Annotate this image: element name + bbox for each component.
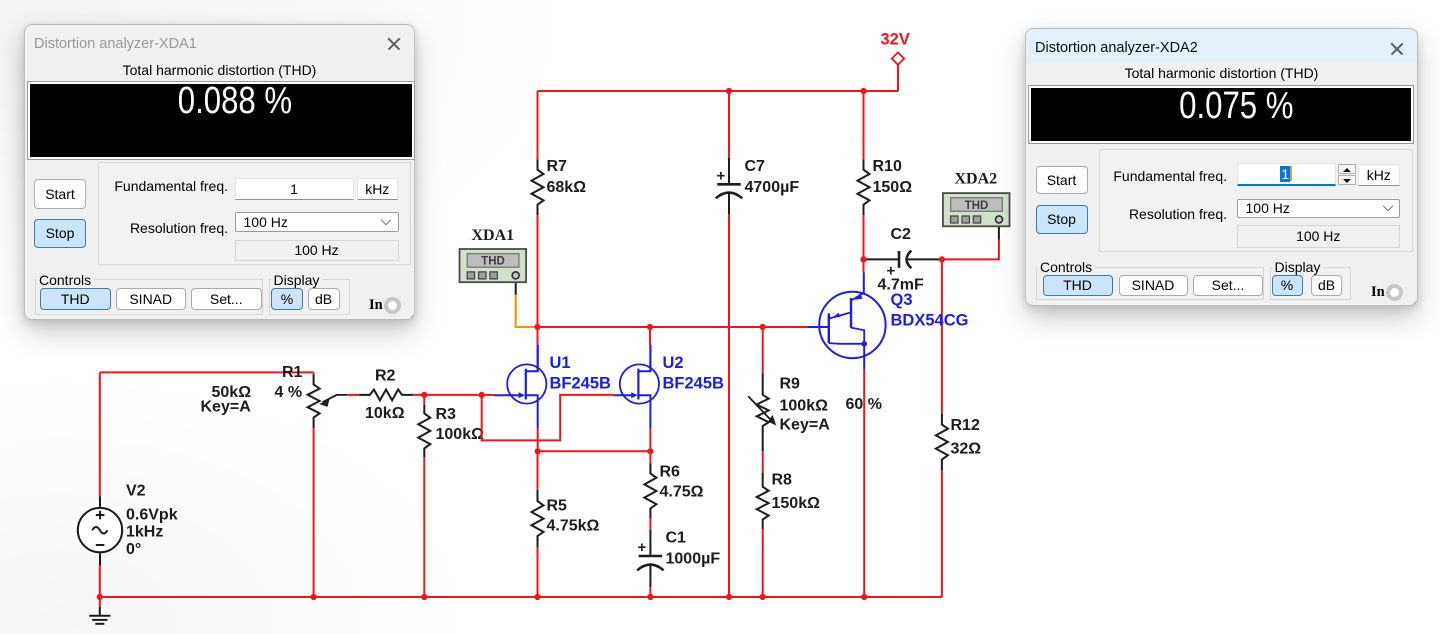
resistor R3 <box>418 405 430 457</box>
svg-text:R2: R2 <box>375 368 396 385</box>
svg-text:150kΩ: 150kΩ <box>772 495 821 512</box>
node mid-bus/R9 junction <box>760 324 766 330</box>
capacitor C2 <box>866 258 898 260</box>
resistor R6 <box>644 463 656 518</box>
wire mid bus <box>536 326 807 328</box>
node R8/bottom-bus junction <box>760 594 766 600</box>
svg-text:THD: THD <box>965 200 989 212</box>
wire mid-bus to U2 drain <box>649 327 651 345</box>
wire V2 to bottom bus <box>99 565 101 597</box>
wire R6 to C1 <box>649 519 651 530</box>
wire mid-bus to U1 drain <box>537 327 539 345</box>
svg-text:4 %: 4 % <box>275 384 303 401</box>
wire source node to R6 <box>649 451 651 463</box>
resistor R7 <box>532 159 544 215</box>
transistor U2 <box>649 345 651 371</box>
svg-text:150Ω: 150Ω <box>873 179 913 196</box>
wire source node to R5 <box>537 451 539 489</box>
node C7/bottom-bus junction <box>726 594 732 600</box>
svg-text:XDA2: XDA2 <box>955 171 998 188</box>
instrument window XDA2 <box>1025 28 1418 306</box>
ground <box>99 607 101 616</box>
wire R10 to C2 node <box>863 215 865 259</box>
svg-text:C2: C2 <box>891 226 912 243</box>
svg-text:Q3: Q3 <box>891 291 913 309</box>
wire R1 to bottom bus <box>313 428 315 597</box>
svg-text:68kΩ: 68kΩ <box>547 179 587 196</box>
svg-text:Key=A: Key=A <box>780 417 831 434</box>
svg-text:60 %: 60 % <box>846 396 882 413</box>
node U1 source junction <box>535 448 541 454</box>
svg-text:R3: R3 <box>436 406 457 423</box>
node C2/R12 junction <box>939 256 945 262</box>
wire R3 to bottom bus <box>423 457 425 597</box>
svg-text:C1: C1 <box>666 530 687 547</box>
svg-text:BDX54CG: BDX54CG <box>891 312 969 330</box>
node mid-bus/U2 junction <box>647 324 653 330</box>
svg-text:1kHz: 1kHz <box>126 524 163 541</box>
wire Q3 base stub <box>807 326 819 328</box>
node C1/bottom-bus junction <box>647 594 653 600</box>
svg-text:+: + <box>717 168 726 185</box>
node U1 gate junction <box>479 392 485 398</box>
instrument icon XDA1 <box>460 249 527 282</box>
wire 32V rail riser <box>897 65 899 92</box>
wire mid-bus to R9 <box>762 327 764 374</box>
wire Q3 collector to bottom bus <box>863 369 865 597</box>
wire top-bus to R10 <box>863 91 865 159</box>
potentiometer R1 <box>308 375 320 429</box>
wire R1 top corner <box>313 372 315 374</box>
node R3/bottom-bus junction <box>421 594 427 600</box>
node R1/bottom-bus junction <box>311 594 317 600</box>
node top-bus/C7 junction <box>726 88 732 94</box>
wire R2 to U1 gate <box>413 394 494 396</box>
wire C2 node to XDA2 <box>942 240 999 260</box>
wire U1-U2 source link <box>538 450 651 452</box>
spinner up/down <box>1338 164 1357 174</box>
power 32V terminal <box>892 52 904 64</box>
svg-text:U2: U2 <box>663 354 684 372</box>
wire bottom bus <box>100 596 942 598</box>
svg-text:4.75kΩ: 4.75kΩ <box>547 518 600 535</box>
resistor R5 <box>532 490 544 548</box>
wire R12 to bottom bus <box>941 470 943 597</box>
potentiometer R9 <box>757 374 769 452</box>
svg-text:R8: R8 <box>772 472 793 489</box>
svg-text:10kΩ: 10kΩ <box>365 405 405 422</box>
wire 32V-bus to R7 <box>537 91 539 159</box>
node top-bus/R10 junction <box>860 88 866 94</box>
wire U1 source down <box>537 428 539 451</box>
wire R8 to bottom bus <box>762 529 764 597</box>
wire ground stub <box>99 597 101 607</box>
node Q3/bottom-bus junction <box>861 594 867 600</box>
resistor R8 <box>757 473 769 530</box>
svg-text:4700µF: 4700µF <box>745 179 800 196</box>
capacitor C7 <box>728 158 730 184</box>
wire V2 top <box>99 372 101 496</box>
node R5/bottom-bus junction <box>534 594 540 600</box>
svg-text:R7: R7 <box>547 158 568 175</box>
node R2/R3 junction <box>421 392 427 398</box>
node V2/ground junction <box>97 594 103 600</box>
wire R9 to R8 <box>762 451 764 472</box>
svg-text:R9: R9 <box>780 376 801 393</box>
wire XDA1 orange segment <box>516 295 536 327</box>
wire top-bus to C7 <box>728 91 730 159</box>
wire top bus <box>538 90 899 92</box>
capacitor C1 <box>649 530 651 555</box>
svg-text:THD: THD <box>481 256 505 268</box>
svg-text:32Ω: 32Ω <box>951 441 982 458</box>
wire C1 to bottom bus <box>649 587 651 597</box>
wire V2 to R1 top <box>100 371 314 373</box>
svg-text:4.75Ω: 4.75Ω <box>660 484 704 501</box>
wire R1 wiper to R2 <box>347 394 359 396</box>
wire C2 node to R12 <box>941 259 943 414</box>
svg-text:1000µF: 1000µF <box>666 551 721 568</box>
transistor U1 <box>537 345 539 371</box>
svg-text:0.6Vpk: 0.6Vpk <box>126 507 178 524</box>
instrument window XDA1 <box>24 24 415 320</box>
svg-text:R1: R1 <box>282 364 303 381</box>
wire XDA1 pin stub <box>515 279 517 294</box>
svg-text:100kΩ: 100kΩ <box>780 398 829 415</box>
wire R5 to bottom bus <box>537 548 539 597</box>
svg-text:R12: R12 <box>951 417 980 434</box>
wire U2 source down <box>649 428 651 451</box>
svg-text:Key=A: Key=A <box>201 399 252 416</box>
svg-text:C7: C7 <box>745 158 766 175</box>
wire XDA2 pin stub <box>998 223 1000 240</box>
svg-text:V2: V2 <box>126 483 146 500</box>
svg-text:BF245B: BF245B <box>550 375 612 393</box>
svg-text:0°: 0° <box>126 541 141 558</box>
source V2 <box>99 497 101 509</box>
instrument icon XDA2 <box>943 193 1010 226</box>
wire R7 to mid-bus <box>537 215 539 327</box>
node C2 left junction <box>860 256 866 262</box>
resistor R2 <box>359 390 413 401</box>
wire U2 gate detour <box>482 395 614 441</box>
svg-text:XDA1: XDA1 <box>472 227 515 244</box>
wire C7 to bottom bus <box>728 214 730 597</box>
wire C2 node to Q3 emitter <box>863 259 865 272</box>
svg-text:BF245B: BF245B <box>663 375 725 393</box>
node mid-bus/U1 junction <box>534 324 540 330</box>
resistor R12 <box>936 414 948 470</box>
svg-text:U1: U1 <box>550 354 571 372</box>
transistor Q3 <box>863 272 865 293</box>
svg-text:100kΩ: 100kΩ <box>436 426 485 443</box>
wire R3 top <box>423 395 425 405</box>
svg-text:32V: 32V <box>881 31 910 49</box>
svg-text:R5: R5 <box>547 498 568 515</box>
resistor R10 <box>858 159 870 215</box>
node U2 source junction <box>647 448 653 454</box>
svg-text:R10: R10 <box>873 158 902 175</box>
svg-text:R6: R6 <box>660 464 681 481</box>
svg-text:+: + <box>638 539 647 556</box>
